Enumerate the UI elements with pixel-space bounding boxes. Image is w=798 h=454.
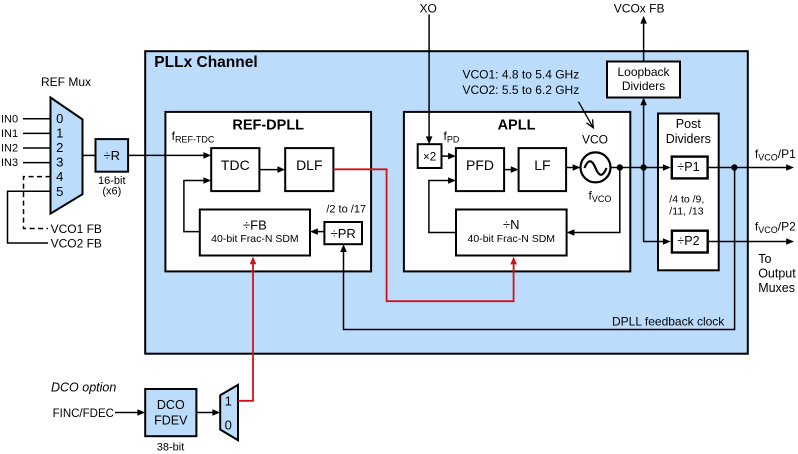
wire IN3 (23, 162, 51, 164)
svg-text:IN0: IN0 (1, 113, 18, 125)
Loopback Dividers block (607, 62, 680, 98)
svg-text:0: 0 (225, 417, 232, 432)
svg-text:5: 5 (56, 184, 63, 199)
svg-text:/11, /13: /11, /13 (669, 206, 703, 218)
svg-text:DCO option: DCO option (51, 380, 116, 394)
wire junction to Loopback Dividers (643, 105, 645, 168)
block x2 multiplier (418, 144, 442, 168)
wire divider P1 output (709, 167, 787, 169)
wire VCO output (611, 167, 664, 169)
svg-text:÷N: ÷N (503, 217, 520, 232)
svg-text:÷P2: ÷P2 (677, 234, 699, 248)
svg-text:÷PR: ÷PR (331, 226, 356, 241)
junction VCO output (617, 164, 623, 170)
svg-text:fVCO/P1: fVCO/P1 (755, 147, 796, 163)
svg-text:÷R: ÷R (104, 148, 121, 163)
svg-text:VCO1: 4.8 to 5.4 GHz: VCO1: 4.8 to 5.4 GHz (463, 68, 580, 82)
wire VCOx FB output (643, 24, 645, 62)
svg-text:(x6): (x6) (102, 186, 121, 198)
svg-text:fVCO/P2: fVCO/P2 (755, 220, 796, 236)
APLL block (404, 112, 630, 272)
block divider P2 (672, 231, 708, 253)
svg-text:Dividers: Dividers (622, 79, 665, 93)
wire VCO1 FB (dashed) (24, 177, 51, 229)
wire DCO mux to divider FB (red) (238, 264, 253, 401)
junction loopback (640, 164, 646, 170)
svg-text:Dividers: Dividers (666, 132, 711, 146)
wire FINC/FDEC to DCO FDEV (115, 412, 138, 414)
svg-text:Output: Output (758, 267, 796, 281)
svg-text:PLLx Channel: PLLx Channel (154, 54, 257, 71)
svg-text:APLL: APLL (498, 118, 536, 134)
block LF (519, 148, 567, 191)
wire IN1 (23, 132, 51, 134)
svg-text:XO: XO (420, 2, 437, 16)
block PFD (456, 148, 504, 191)
svg-text:3: 3 (56, 155, 63, 170)
block divider P1 (672, 157, 708, 179)
svg-text:Muxes: Muxes (758, 281, 795, 295)
svg-text:DLF: DLF (296, 157, 322, 173)
svg-text:VCOx FB: VCOx FB (614, 2, 665, 16)
svg-text:2: 2 (56, 140, 63, 155)
svg-text:×2: ×2 (423, 151, 436, 163)
wire divider N to PFD feedback (429, 181, 456, 233)
wire PFD to LF (504, 169, 511, 171)
svg-text:IN3: IN3 (1, 157, 18, 169)
wire VCO to divider N feedback (574, 168, 620, 233)
oscillator VCO (581, 152, 611, 182)
svg-text:DPLL feedback clock: DPLL feedback clock (612, 315, 725, 329)
DCO mux trapezoid (220, 385, 238, 440)
svg-text:LF: LF (534, 157, 550, 173)
svg-text:To: To (758, 252, 771, 266)
block divider N 40-bit Frac-N SDM (456, 210, 567, 256)
wire mux to divider R (83, 154, 96, 156)
wire LF to VCO (566, 167, 573, 169)
svg-text:÷FB: ÷FB (243, 218, 267, 233)
wire XO input (428, 15, 430, 138)
junction P1 output (731, 164, 737, 170)
Post Dividers block (658, 114, 719, 271)
wire DCO FDEV to DCO mux (196, 412, 213, 414)
wire VCO2 FB (8, 191, 51, 243)
svg-text:DCO: DCO (157, 398, 185, 412)
svg-text:38-bit: 38-bit (157, 442, 185, 454)
block DLF (285, 148, 333, 191)
wire IN0 (23, 118, 51, 120)
svg-text:IN1: IN1 (1, 128, 18, 140)
svg-text:1: 1 (56, 125, 63, 140)
svg-text:4: 4 (56, 169, 63, 184)
REF-DPLL block (165, 112, 371, 272)
svg-text:Loopback: Loopback (617, 65, 670, 79)
wire TDC to DLF (259, 169, 278, 171)
wire divider FB to TDC feedback (184, 181, 204, 232)
wire DPLL feedback clock (344, 168, 735, 330)
label To Output Muxes (758, 252, 796, 295)
wire divider R to TDC (128, 154, 204, 156)
svg-text:FINC/FDEC: FINC/FDEC (53, 408, 114, 420)
svg-text:/4 to /9,: /4 to /9, (669, 194, 704, 206)
wire junction to divider P2 (644, 168, 664, 242)
svg-text:Post: Post (676, 117, 702, 131)
wire DLF to divider N (DCO red path) (333, 169, 513, 301)
wire x2 to PFD (442, 155, 449, 157)
svg-text:1: 1 (225, 393, 232, 408)
svg-text:VCO1 FB: VCO1 FB (51, 222, 102, 236)
svg-text:VCO: VCO (582, 133, 608, 147)
svg-text:REF Mux: REF Mux (41, 75, 91, 89)
svg-text:FDEV: FDEV (154, 414, 188, 428)
wire divider P2 output (709, 241, 787, 243)
block TDC (211, 148, 259, 191)
svg-text:÷P1: ÷P1 (677, 160, 699, 174)
svg-text:VCO2: 5.5 to 6.2 GHz: VCO2: 5.5 to 6.2 GHz (463, 83, 580, 97)
svg-text:REF-DPLL: REF-DPLL (232, 118, 304, 134)
svg-text:0: 0 (56, 111, 63, 126)
divider R block (96, 139, 129, 172)
block divider FB 40-bit Frac-N SDM (200, 210, 310, 256)
svg-text:VCO2 FB: VCO2 FB (51, 236, 102, 250)
svg-text:40-bit Frac-N SDM: 40-bit Frac-N SDM (211, 233, 299, 245)
svg-text:/2 to /17: /2 to /17 (326, 204, 366, 216)
PLLx Channel block (145, 51, 748, 354)
wire IN2 (23, 147, 51, 149)
block DCO FDEV (145, 389, 196, 436)
wire divider PR to divider FB (317, 231, 324, 233)
block divider PR (324, 222, 362, 244)
svg-text:TDC: TDC (221, 157, 250, 173)
REF Mux trapezoid (51, 98, 83, 214)
svg-text:40-bit Frac-N SDM: 40-bit Frac-N SDM (468, 233, 556, 245)
svg-text:IN2: IN2 (1, 143, 18, 155)
svg-text:PFD: PFD (466, 157, 494, 173)
callout VCO1/VCO2 frequency range (463, 68, 594, 128)
